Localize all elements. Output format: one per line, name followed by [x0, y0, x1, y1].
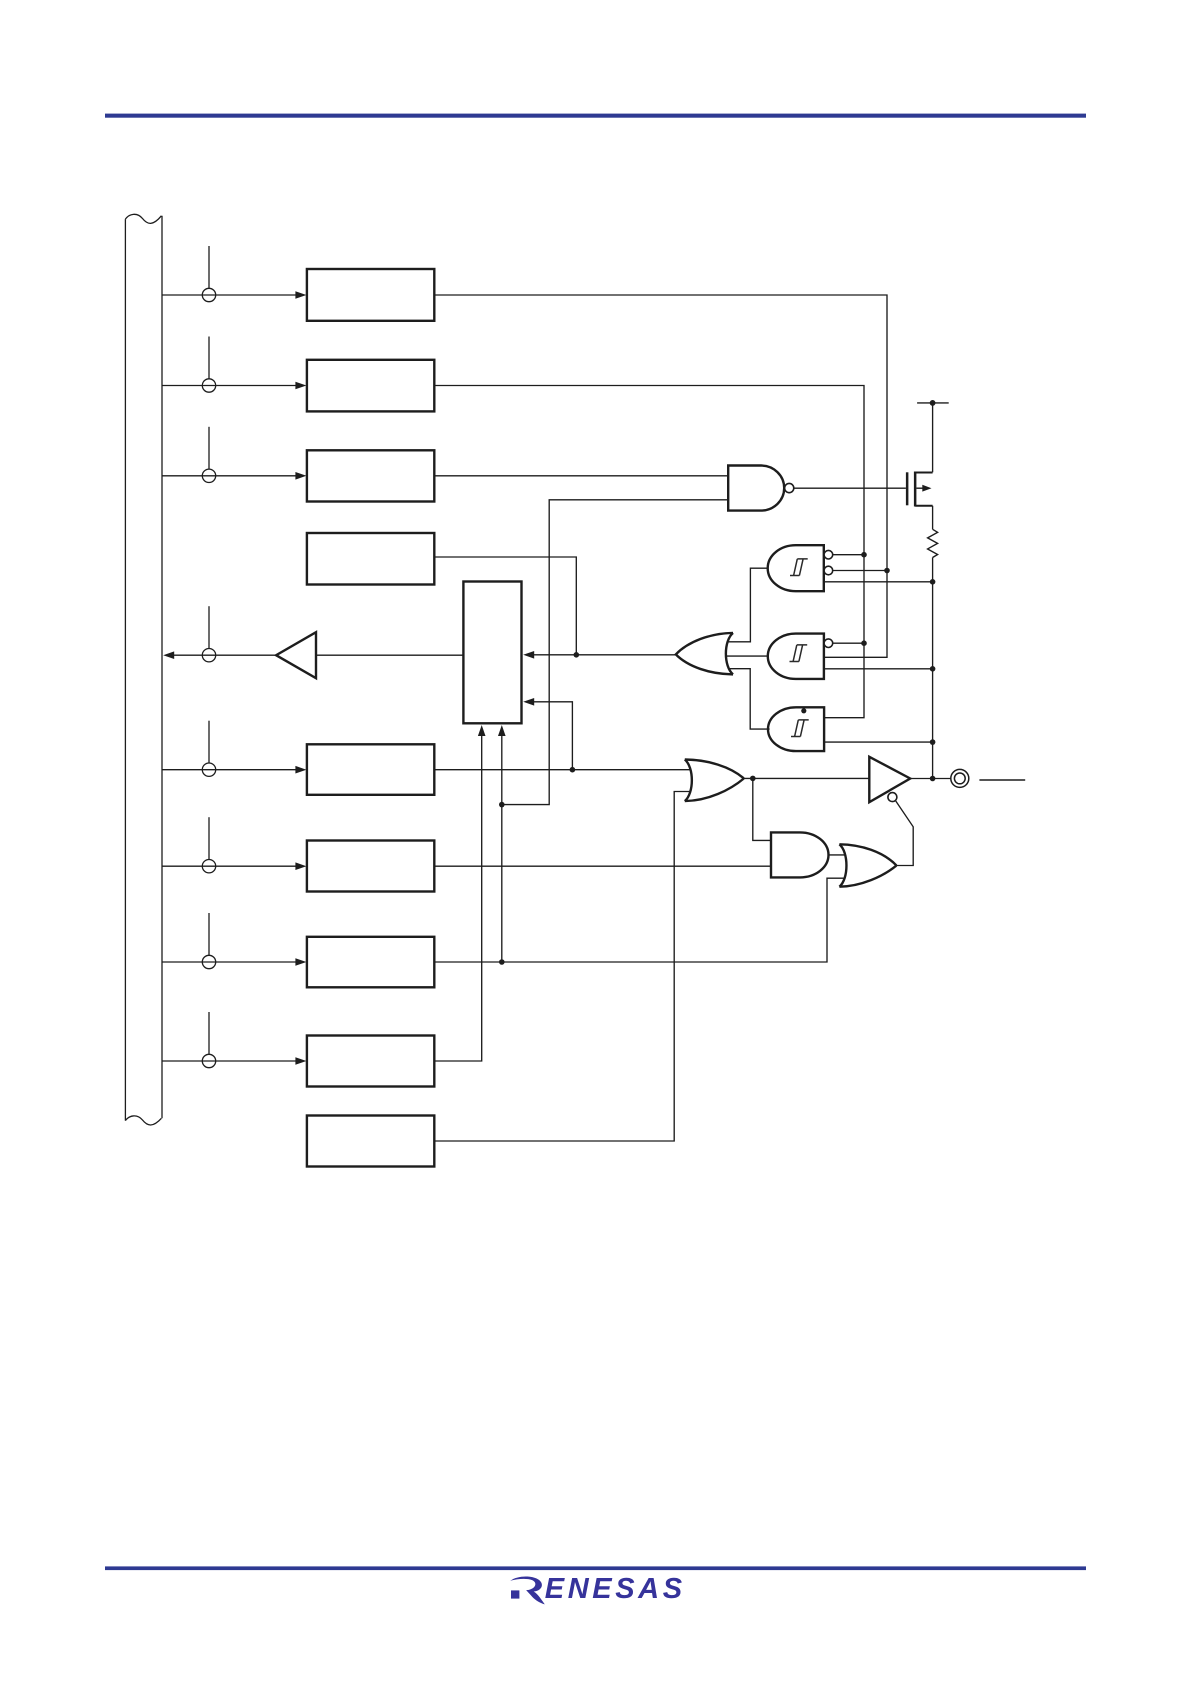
- wire box5 output to OR1: [434, 769, 690, 771]
- row 1 circle: [202, 288, 215, 301]
- register boxes column: [276, 269, 521, 1167]
- register box 8: [307, 1036, 434, 1087]
- register box 1: [307, 269, 434, 321]
- junction buffer input branch: [750, 776, 756, 782]
- internal data bus left line: [124, 219, 126, 1121]
- wire OR2 output to buffer enable bubble: [896, 801, 914, 866]
- p-channel MOSFET Q1 gate bar: [906, 472, 909, 505]
- row 3 stub: [208, 427, 210, 469]
- G2 hysteresis symbol: [790, 645, 808, 662]
- register box 6: [307, 841, 434, 892]
- arrow up into mux bottom right: [498, 725, 506, 736]
- arrow into box6: [295, 862, 306, 870]
- wire box1 output to net B: [434, 295, 887, 657]
- OR gate G7: [839, 844, 896, 886]
- junction net A top: [861, 552, 867, 558]
- arrow into box8: [295, 1057, 306, 1065]
- pull-up resistor R1: [928, 529, 938, 557]
- wire bus to box5: [162, 769, 298, 771]
- internal data bus right line: [161, 216, 163, 1119]
- svg-text:ENESAS: ENESAS: [545, 1573, 686, 1605]
- Schmitt AND gate G3: [768, 707, 824, 751]
- wire pad to external: [979, 779, 1025, 781]
- arrow into box3: [295, 472, 306, 480]
- arrowheads: [163, 291, 534, 1065]
- logo square: [511, 1590, 519, 1598]
- footer rule: [105, 1566, 1086, 1570]
- G1 bubble top: [824, 550, 833, 559]
- wire bus to box1: [162, 294, 298, 296]
- junction dots: [499, 400, 935, 965]
- U2 enable bubble: [888, 793, 897, 802]
- Schmitt AND gate G2: [768, 634, 824, 679]
- junction net A bottom: [861, 640, 867, 646]
- wire box9 output to OR1 input2: [434, 792, 690, 1142]
- Q1 drain jog: [915, 472, 932, 474]
- wire NAND output to MOSFET gate: [794, 487, 906, 489]
- G1 bubble bottom: [824, 566, 833, 575]
- G3 hysteresis symbol: [791, 720, 809, 737]
- wire box4 output to mux input line: [434, 557, 576, 655]
- G1 hysteresis symbol: [790, 559, 808, 576]
- wire VDD to MOSFET drain: [932, 403, 934, 472]
- wire box7 output to OR2: [434, 878, 845, 962]
- junction box7 line branch: [499, 959, 505, 965]
- wire mux to buffer: [316, 654, 463, 656]
- arrow into bus row5: [163, 651, 174, 659]
- OR gate G5: [685, 760, 744, 802]
- output buffer triangle to bus: [276, 632, 316, 678]
- row 2 circle: [202, 379, 215, 392]
- wire schmitt1 output to OR3 input1: [729, 568, 768, 642]
- row 9 stub: [208, 1012, 210, 1054]
- arrow into mux right edge row1: [523, 651, 534, 659]
- NAND gate U1: [728, 466, 784, 511]
- junction pin net schmitt3: [930, 739, 936, 745]
- wire resistor to pin node: [932, 558, 934, 779]
- Schmitt AND gate G1: [768, 545, 824, 591]
- register box 9: [307, 1116, 434, 1167]
- wire box3 output to NAND input1: [434, 475, 728, 477]
- G3 top dot: [801, 708, 806, 713]
- Renesas logo: [510, 1573, 685, 1605]
- junction pin net schmitt1: [930, 579, 936, 585]
- row 8 circle: [202, 955, 215, 968]
- wire schmitt2 input3 to pin net: [824, 668, 933, 670]
- Q1 channel bar: [914, 472, 917, 507]
- wire bus to box7: [162, 961, 298, 963]
- register box 7: [307, 937, 434, 988]
- row 5 circle: [202, 649, 215, 662]
- wire buffer output to pad: [910, 778, 951, 780]
- I/O pin pad outer circle: [951, 769, 969, 787]
- wire OR3 output to mux: [530, 654, 676, 656]
- arrow into box7: [295, 958, 306, 966]
- arrow into box5: [295, 766, 306, 774]
- register box 3: [307, 450, 434, 501]
- arrow into box2: [295, 382, 306, 390]
- arrow up into mux bottom left: [478, 725, 486, 736]
- wire schmitt2 output to OR3 input2: [726, 655, 769, 657]
- register box 4: [307, 533, 434, 585]
- row 1 stub: [208, 246, 210, 288]
- wire schmitt1 bubble1 to net A: [833, 554, 864, 556]
- junction box5 line branch: [570, 767, 576, 773]
- wire box7 branch up to mux: [501, 731, 503, 962]
- bus break squiggle bottom: [125, 1116, 161, 1125]
- wire schmitt1 bubble2 to net B: [833, 570, 887, 572]
- row 6 circle: [202, 763, 215, 776]
- wire bus to box8: [162, 1060, 298, 1062]
- row 7 circle: [202, 860, 215, 873]
- register box 2: [307, 360, 434, 412]
- AND gate G6: [771, 832, 829, 877]
- junction pin net schmitt2: [930, 666, 936, 672]
- VDD rail: [917, 402, 949, 404]
- logo R tail: [526, 1590, 545, 1604]
- multiplexer tall box: [463, 582, 521, 724]
- wire bus to box2: [162, 385, 298, 387]
- wire NAND input2 from node P7: [502, 500, 728, 805]
- wire box8 output up to mux: [434, 731, 481, 1061]
- bus break squiggle top: [125, 214, 161, 223]
- junction box4/OR3 line: [574, 652, 580, 658]
- wire schmitt3 output to OR3 input3: [729, 669, 770, 729]
- junction NAND2 branch: [499, 802, 505, 808]
- wire bus to box6: [162, 865, 298, 867]
- wire AND1 output to OR2: [829, 854, 846, 856]
- logo R crest: [510, 1576, 542, 1591]
- Q1 body arrowhead: [922, 485, 931, 492]
- wire box6 output to AND1: [434, 865, 771, 867]
- tristate output buffer U2: [869, 757, 910, 802]
- wire mux input2 from box5 line: [530, 702, 572, 770]
- junction pin net buffer output: [930, 776, 936, 782]
- row 3 circle: [202, 469, 215, 482]
- row 2 stub: [208, 337, 210, 379]
- wire MOSFET source to resistor: [932, 506, 934, 530]
- Q1 source jog: [915, 505, 932, 507]
- wire buffer to bus row 5: [170, 654, 276, 656]
- wire OR1 output to tristate buffer: [743, 777, 869, 779]
- wire box2 output to net A: [434, 386, 864, 718]
- row 5 stub: [208, 606, 210, 648]
- OR gate G4 mirrored left-pointing: [676, 633, 733, 675]
- NAND output bubble: [785, 483, 794, 492]
- row 8 stub: [208, 913, 210, 955]
- row 6 stub: [208, 721, 210, 763]
- Q1 body arrow line: [916, 487, 922, 489]
- header rule: [105, 114, 1086, 118]
- wire schmitt2 bubble to net A: [833, 642, 864, 644]
- wire schmitt3 input2 to pin net: [824, 741, 933, 743]
- arrow into box1: [295, 291, 306, 299]
- junction net B: [884, 568, 890, 574]
- wire bus to box3: [162, 475, 298, 477]
- junction VDD rail: [930, 400, 936, 406]
- wire schmitt1 input3 to pin net: [824, 581, 933, 583]
- bus row stubs and circles: [202, 246, 215, 1068]
- register box 5: [307, 744, 434, 795]
- arrow into mux right edge row2: [523, 698, 534, 706]
- row 9 circle: [202, 1054, 215, 1067]
- G2 bubble: [824, 639, 833, 648]
- row 7 stub: [208, 817, 210, 859]
- wire AND1 input1 branch: [753, 778, 771, 840]
- I/O pin pad inner circle: [954, 773, 965, 784]
